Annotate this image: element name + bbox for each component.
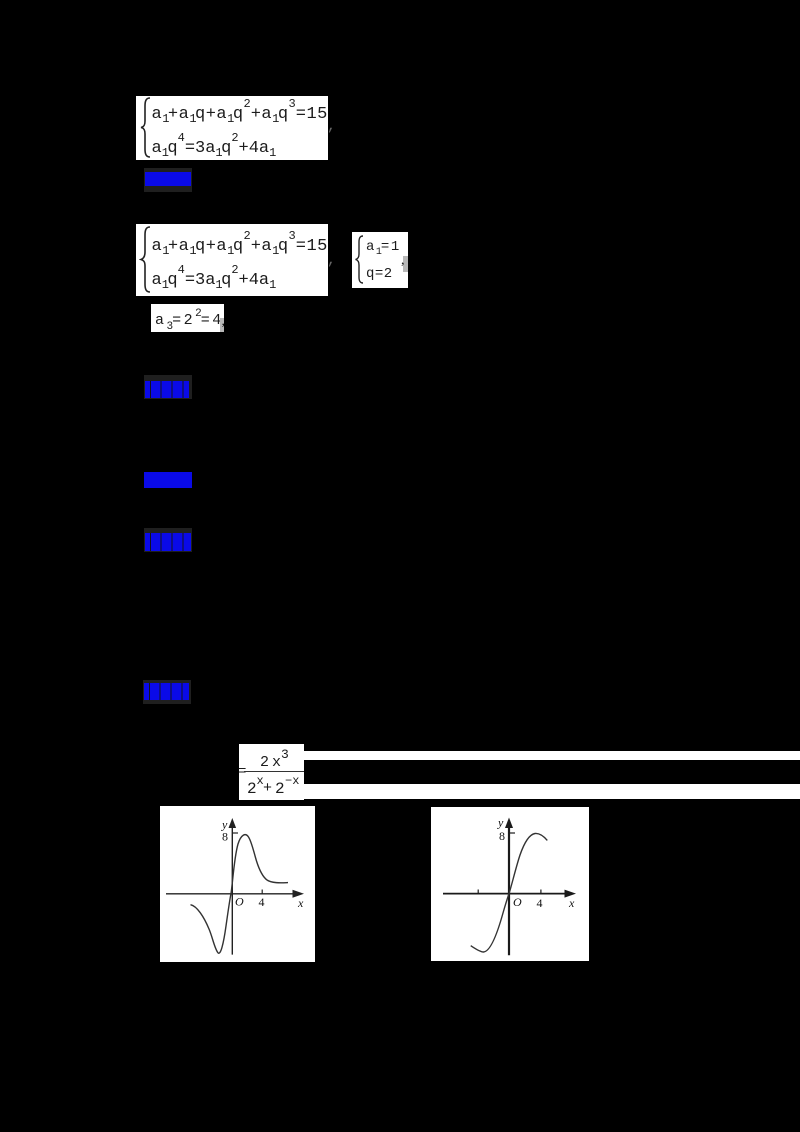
- comma after box 3 on gray strip: [403, 256, 408, 272]
- curve: [471, 833, 548, 952]
- blue label 3: [144, 472, 192, 488]
- formula box 2: system of equations (repeat): [136, 224, 328, 296]
- tick 8: [232, 832, 238, 834]
- svg-text:y: y: [497, 816, 504, 830]
- denominator 2^x+2^-x: [247, 781, 257, 797]
- tick 4: [261, 890, 263, 895]
- formula box 3: a1=1, q=2: [352, 232, 408, 288]
- curve: [191, 835, 289, 954]
- svg-text:O: O: [513, 895, 522, 909]
- y-axis: [508, 824, 510, 955]
- tick 4: [540, 890, 542, 895]
- blue label 4: [144, 528, 192, 552]
- fraction formula box: = 2x^3 / (2^x+2^-x): [239, 744, 304, 800]
- blue label 1: [144, 168, 192, 192]
- svg-text:8: 8: [222, 830, 228, 844]
- fraction bar: [244, 771, 304, 772]
- svg-text:4: 4: [537, 896, 543, 910]
- tick -4: [477, 890, 479, 895]
- tick 8: [509, 832, 515, 834]
- svg-text:x: x: [297, 896, 304, 910]
- svg-text:O: O: [235, 895, 244, 909]
- svg-text:4: 4: [259, 895, 265, 909]
- formula box 4: a3=2^2=4: [151, 304, 224, 332]
- blue label 5: [143, 680, 191, 704]
- left graph box: [160, 806, 315, 962]
- x-axis: [443, 893, 568, 895]
- white strip 2: [304, 784, 800, 799]
- formula box 1: system of equations: [136, 96, 328, 160]
- numerator 2x^3: [260, 755, 281, 770]
- comma after box 1: [327, 118, 336, 135]
- right graph box: [431, 807, 589, 961]
- white strip 1: [304, 751, 800, 760]
- equals sign: [238, 765, 246, 779]
- svg-text:x: x: [568, 896, 575, 910]
- blue label 2: [144, 375, 192, 399]
- y-axis: [231, 824, 233, 955]
- x-axis: [166, 893, 295, 895]
- comma after box 2: [327, 252, 336, 269]
- svg-text:8: 8: [499, 829, 505, 843]
